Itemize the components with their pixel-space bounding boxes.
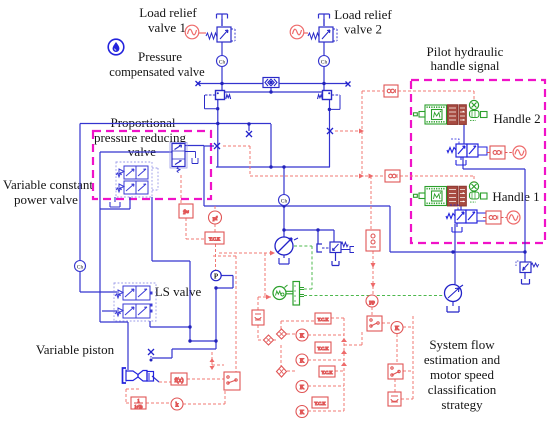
wire: step to piston X [152,349,216,358]
wire: handle2 feed drop [463,125,465,145]
YCK1 block [205,232,224,244]
Pi sensor circle [209,211,222,224]
B2 block [388,392,401,406]
red signal: lag loop [126,389,140,403]
svg-text:System flow: System flow [429,337,495,352]
red signal: piston to fx [159,381,171,383]
tank symbol above relief valve 2 [319,14,330,26]
gain box A (to handle2) [384,85,398,97]
wire: LS link y=341 [190,340,216,342]
wire: motor tank stub [452,302,454,306]
wire: handle2 valve drain to x=525 [463,157,525,252]
handle2 multiplier circle [469,100,478,109]
signal gain box for handle 1 [483,211,507,224]
proportional reducing pilot valve A [116,166,148,179]
main valve V2 (right) [318,91,341,110]
junction: collector at pump feed [282,165,285,168]
svg-text:estimation and: estimation and [424,352,501,367]
tank symbol above relief valve 1 [217,14,228,26]
junction: motor drop on main line [451,250,454,253]
YCKb block [315,342,331,353]
svg-text:Load relief: Load relief [139,5,197,20]
estimator pins block [224,372,240,390]
wire: left column2 x=100 [100,152,128,322]
wire: reducing valve feed line [100,151,172,153]
pilot valve for handle 1 [446,205,486,232]
wire: valve1 bottom port down [217,100,219,168]
svg-text:k: k [176,403,179,409]
compensator valve mid (piston + valve + spring) [317,230,354,266]
wire: left riser of pump line [204,146,390,206]
junction: valve1 pilot loop [216,107,219,110]
red signal: OH to pp chain [372,251,373,316]
B1 block [252,310,264,325]
diamond D1 [264,335,274,345]
red signal: K gain outputs [308,335,344,411]
selector block right [388,364,403,379]
LS valve row 2 [115,304,150,318]
thin frame around proportional valves [116,162,158,197]
red arrow: into column x=362 [359,129,364,134]
svg-text:K: K [300,410,305,416]
junction: header at relief drop 2 [322,82,325,85]
junction: piston X stub dot [150,359,153,362]
svg-text:1: 1 [138,398,140,403]
red arrow: OH chain lower [371,283,376,288]
hydraulic motor bottom right [445,285,464,313]
P sensor circle [211,270,221,280]
green signal: motor speed line to hydraulic motor [304,295,443,297]
wire: valve2 bottom port down [329,100,331,167]
X mark: left end header [196,81,201,86]
junction: pilot line at valve1 drop [216,122,219,125]
wire: riser top link to X [204,145,214,147]
lag block 1/(1+Ts) [131,397,146,409]
relief valve R1 [206,27,235,42]
red arrow: into gain B line [359,174,364,179]
junction: LS column bottom [214,339,217,342]
svg-text:Y.C.K: Y.C.K [317,346,329,351]
wire: LS link y=327 [150,326,190,328]
svg-text:1+Ts: 1+Ts [135,404,143,409]
K5 gain circle [391,322,403,334]
svg-text:Y.C.K: Y.C.K [317,317,329,322]
wire: LS row2 input stub [102,310,117,312]
handle2 green motor block [414,105,447,124]
svg-text:valve 1: valve 1 [148,20,186,35]
wire: LS output column x=216 [215,288,217,349]
svg-text:Ch: Ch [281,199,288,205]
svg-text:Pressure: Pressure [138,49,182,64]
red signal: diamond cluster links [273,321,315,371]
junction: P sensor loop [214,286,217,289]
gain box B (to handle1) [385,170,400,182]
pp circle [366,295,378,307]
relief valve R2 [308,27,337,42]
pilot valve for handle 2 [447,139,487,165]
handle2 dark red valve block [448,105,467,125]
pressure reducing valve main [170,143,198,173]
red signal: junction x=212 [212,352,224,365]
X mark: stub x=249 [246,131,252,137]
svg-text:pf: pf [213,215,218,222]
wire: pump tank stub [283,255,285,258]
svg-text:compensated valve: compensated valve [109,65,205,79]
svg-text:valve 2: valve 2 [344,22,382,37]
red signal: right column x=413 [401,316,413,399]
wire: handle1 feed drop [460,206,462,210]
right relief valve [516,261,539,284]
K1 circle [296,329,308,341]
f0 function block [179,204,193,218]
handle 2 joystick assembly [414,100,488,124]
svg-text:Proportional: Proportional [111,115,176,130]
pump tank bracket [279,258,289,264]
handle2 green gain box [470,112,487,121]
red arrow: branch to OH [369,174,374,179]
svg-text:f≈: f≈ [183,209,189,216]
red signal: gain B to handle1 [400,176,474,182]
comparator switch block [367,316,382,331]
svg-text:pp: pp [369,300,375,306]
main pump circle [275,237,298,255]
handle1 green motor block [414,187,447,206]
handle2 green accumulator oval [470,111,480,118]
svg-text:LS valve: LS valve [155,284,202,299]
red arrow: summing column x=344 [341,338,347,366]
junction: orifice drain on interlink [269,90,272,93]
signal source for handle 2 [513,146,526,159]
proportional reducing pilot valve B [116,181,148,194]
wire: branch to compensator valve [284,230,334,242]
handle1 green gain box [470,193,487,202]
red signal: f0 to YCK1 [186,218,205,239]
red signal: into gain box A [362,90,384,92]
pressure compensated valve icon (drop in circle) [108,39,124,55]
LS valve row 1 [115,286,150,300]
green shaft coupling block [286,282,304,306]
magenta frame: proportional pressure reducing valve box [93,131,211,199]
X mark: below valve2 [327,128,333,134]
wire: relief right drop [524,252,526,279]
junction: pilot line stub [247,122,250,125]
signal source circle for load relief valve 2 [290,25,308,39]
K2 circle [296,354,308,366]
k gain circle [171,398,183,410]
junction: collector at x=271 [269,165,272,168]
red signal: YCK row links [331,318,344,411]
signal source circle for load relief valve 1 [185,25,206,39]
YCKd block [312,397,328,408]
wire: piston feed x=128 [127,322,129,370]
svg-text:Y.C.K: Y.C.K [209,237,221,242]
main valve V1 (left) [205,91,231,109]
red signal: column to comparator [344,331,362,345]
LS valve port marks [150,292,153,313]
f(x) block [171,373,187,385]
svg-text:Y.C.K: Y.C.K [321,370,333,375]
svg-text:Variable piston: Variable piston [36,342,115,357]
svg-text:Load relief: Load relief [334,7,392,22]
wire: reducing valve right port to riser [185,145,204,147]
K3 circle [296,381,308,393]
red signal: K5 down chain [395,334,397,392]
handle1 dark red valve block [448,186,467,206]
handle1 multiplier circle [469,182,478,191]
wire: piston outlet slant [152,376,159,382]
wire: bottom main line y=252 [390,251,525,253]
red arrow: into motor block [266,295,271,300]
red signal: pump swash command [219,253,274,310]
svg-text:Ch: Ch [77,265,84,271]
red signal: long column x=236 [213,256,236,372]
svg-text:K: K [300,334,305,340]
svg-text:K: K [395,326,400,332]
YCKc block [319,366,335,377]
red signal: vertical x=362 [361,91,363,176]
svg-text:K: K [300,385,305,391]
svg-text:Pilot hydraulic: Pilot hydraulic [427,44,504,59]
wire: handle1 drain to motor [454,224,456,284]
check sensor Ch on relief drop 2 [319,56,330,67]
svg-text:f(x): f(x) [175,377,184,384]
svg-text:K: K [300,359,305,365]
thin frame around LS valves [114,283,156,321]
wire: center feed to pump [283,167,285,237]
red signal: B1 to diamonds [258,325,264,340]
svg-text:Ch: Ch [219,60,226,66]
svg-text:Y.C.K: Y.C.K [314,401,326,406]
svg-text:Handle 1: Handle 1 [492,189,539,204]
red arrow: OH chain upper [371,263,376,268]
check sensor Ch on relief drop 1 [217,56,228,67]
wire: valve top interlink line [225,88,323,93]
signal source for handle 1 [507,211,520,224]
svg-text:strategy: strategy [441,397,483,412]
orifice component on header line [263,78,279,88]
wire: pump line right down x=390 [389,206,391,252]
wire: relief valve 1 drop x=222 [221,19,223,91]
junction: header at relief drop 1 [220,82,223,85]
svg-text:power valve: power valve [14,192,78,207]
svg-text:Handle 2: Handle 2 [493,111,540,126]
signal gain box for handle 2 [487,146,513,159]
wire: collector line y=167 [216,166,330,168]
junction: pump line crossing [282,204,285,207]
green signal: pump swash link [294,246,312,289]
wire: long pilot line y=123.5 [80,123,271,125]
wire: LS frame bottom stub [149,321,151,327]
wire: drop x=190 [189,261,191,341]
red signal: gain A to handle2 [398,91,474,100]
red signal: X1 to gain box B [223,146,385,176]
red signal: YCK1 down to P [215,244,217,270]
junction: relief drop on main line [523,250,526,253]
magenta frame: pilot hydraulic handle signal box [411,80,545,243]
wire: top relief header line [198,83,348,85]
svg-text:motor speed: motor speed [430,367,494,382]
wire: frame drop link [100,197,130,209]
wire: stub with X below pilot line [248,124,250,131]
svg-text:handle signal: handle signal [431,58,500,73]
junction: LS link y=327 [188,325,191,328]
junction: compensator branch [282,228,285,231]
red signal: X2 to junction column [335,130,362,132]
junction: valve2 pilot loop [328,108,331,111]
YCKa block [315,313,331,324]
red signal: comparator to K5 [382,322,391,324]
wire: prop valve frame drop x=152 [152,197,190,261]
diamond D3 [277,366,287,377]
X mark: below valve1 [214,143,220,149]
junction: LS link y=341 [188,339,191,342]
red arrow: estimator junction x=212 [210,358,215,370]
red signal: Ts to k [146,390,225,404]
handle 1 joystick assembly [414,182,488,206]
OH sensor block [366,230,380,251]
red signal: Pi sensor tap [214,206,216,232]
variable piston (bowtie) [123,368,154,383]
wire: relief valve 2 drop x=324 [323,19,325,91]
handle1 green accumulator oval [470,192,480,199]
Ch sensor on left column [75,261,86,272]
red signal: reducing valve to f0 [181,175,186,204]
K4 circle [296,406,308,418]
wire: P sensor detour [216,276,233,289]
Ch sensor on pump feed [279,195,290,206]
red arrow: into pump swash [270,251,275,256]
green electric motor circle [273,285,288,300]
X mark: piston area [148,349,154,355]
wire: left long vertical to LS valve [80,124,117,293]
svg-text:classification: classification [428,382,497,397]
diamond D2 [277,329,287,339]
tank bracket below box1 [110,197,120,207]
svg-text:P: P [214,273,219,281]
X mark: right end header [346,82,351,87]
dotted stub below piston X [150,356,152,360]
svg-text:Ch: Ch [321,60,328,66]
junction: compensator piston branch [316,228,319,231]
wire: drop x=271 to collector [270,124,272,167]
red signal: fx to estimator [187,378,224,380]
red signal: branch down to OH block [370,176,372,230]
